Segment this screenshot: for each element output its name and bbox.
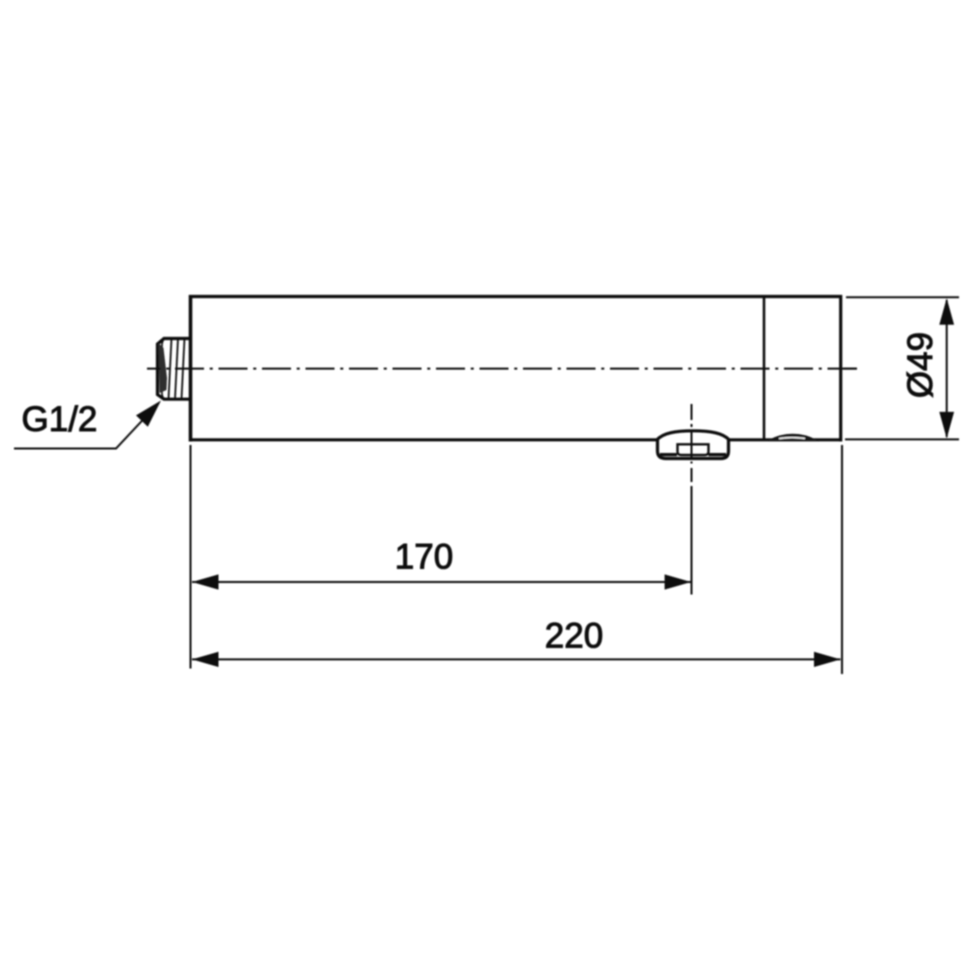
svg-text:Ø49: Ø49 xyxy=(901,332,940,398)
right extension line top xyxy=(846,296,959,298)
thread fitting outline xyxy=(158,339,191,400)
left extension line xyxy=(190,445,192,669)
end cap division line xyxy=(763,297,766,440)
dim 220 right arrow xyxy=(814,652,841,667)
body top edge xyxy=(189,295,842,298)
thread hatch line 3 xyxy=(182,339,185,400)
thread hatch line 2 xyxy=(175,339,178,400)
diameter dimension line xyxy=(946,300,948,437)
diameter arrow bottom xyxy=(939,412,954,439)
horizontal centerline xyxy=(147,368,857,370)
spout vertical centerline xyxy=(691,404,693,482)
thread fitting chamfer line xyxy=(162,339,164,400)
svg-text:220: 220 xyxy=(545,617,603,656)
thread fitting shading xyxy=(159,343,168,393)
right extension line bottom xyxy=(845,438,959,440)
right extension line for 220 xyxy=(841,445,843,674)
lens bump white sliver xyxy=(779,438,805,439)
thread hatch line 1 xyxy=(169,339,172,400)
centerline tick past right edge xyxy=(844,368,858,370)
svg-text:170: 170 xyxy=(395,538,453,577)
body bottom edge right part xyxy=(729,438,843,441)
lens bump on bottom of end cap xyxy=(769,435,816,441)
spout dimension extension line xyxy=(691,486,693,595)
dim 170 left arrow xyxy=(192,574,219,589)
aerator inner rect xyxy=(678,444,709,455)
svg-text:G1/2: G1/2 xyxy=(22,400,98,439)
G1/2 leader line xyxy=(14,417,146,449)
body right edge xyxy=(839,295,842,442)
spout outlet body xyxy=(658,440,729,459)
spout outlet dome arc xyxy=(657,431,729,440)
dim 220 left arrow xyxy=(192,652,219,667)
body bottom edge left part xyxy=(189,438,658,441)
spout outlet inner dark band left xyxy=(660,453,677,456)
body left edge xyxy=(189,295,193,442)
G1/2 leader arrowhead xyxy=(136,401,161,427)
diameter arrow top xyxy=(939,298,954,325)
dim 170 right arrow xyxy=(665,574,691,589)
dim 220 line xyxy=(192,658,841,660)
dim 170 line xyxy=(192,581,691,583)
spout outlet inner dark band right xyxy=(709,453,727,456)
